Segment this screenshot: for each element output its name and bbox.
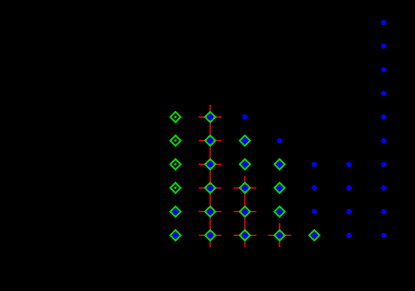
green open diamond marker at col1 row4 bbox=[205, 112, 215, 122]
blue dot marker at col6 row3 bbox=[381, 91, 386, 96]
blue dot marker at col6 row8 bbox=[381, 209, 386, 214]
green open diamond marker at col1 row6 bbox=[205, 159, 215, 169]
blue dot marker inside diamond at col4 row9 bbox=[311, 232, 317, 238]
green open diamond marker at col2 row6 bbox=[240, 159, 250, 169]
blue dot marker at col6 row6 bbox=[381, 162, 386, 167]
error-bar horizontal line at col2 row7 bbox=[234, 187, 257, 189]
blue dot marker inside diamond at col1 row9 bbox=[207, 232, 213, 238]
green open diamond marker at col0 row8 bbox=[170, 206, 180, 216]
blue dot marker inside diamond at col3 row8 bbox=[277, 209, 283, 215]
green open diamond marker at col1 row9 bbox=[205, 230, 215, 240]
error-bar vertical line, column x=245 bbox=[244, 176, 246, 247]
small green dot marker at col0 row4 bbox=[174, 116, 176, 118]
blue dot marker at col3 row5 bbox=[277, 138, 282, 143]
green open diamond marker at col0 row6 bbox=[170, 159, 180, 169]
error-bar vertical line, column x=280 bbox=[279, 223, 281, 247]
green open diamond marker at col1 row8 bbox=[205, 206, 215, 216]
blue dot marker inside diamond at col2 row7 bbox=[242, 185, 248, 191]
blue dot marker inside diamond at col1 row5 bbox=[207, 138, 213, 144]
green open diamond marker at col4 row9 bbox=[309, 230, 319, 240]
blue dot marker inside diamond at col2 row8 bbox=[242, 209, 248, 215]
green open diamond marker at col2 row7 bbox=[240, 183, 250, 193]
blue dot marker at col4 row7 bbox=[312, 185, 317, 190]
blue dot marker at col6 row4 bbox=[381, 114, 386, 119]
error-bar horizontal line at col1 row9 bbox=[199, 234, 222, 236]
error-bar horizontal line at col1 row4 bbox=[199, 116, 222, 118]
blue dot marker at col2 row4 bbox=[242, 114, 247, 119]
blue dot marker inside diamond at col2 row9 bbox=[242, 232, 248, 238]
blue dot marker at col5 row6 bbox=[346, 162, 351, 167]
small green dot marker at col0 row7 bbox=[174, 187, 176, 189]
blue dot marker inside diamond at col1 row6 bbox=[207, 161, 213, 167]
green open diamond marker at col3 row6 bbox=[274, 159, 284, 169]
blue dot marker inside diamond at col3 row6 bbox=[277, 161, 283, 167]
blue dot marker at col5 row8 bbox=[346, 209, 351, 214]
green open diamond marker at col3 row9 bbox=[274, 230, 284, 240]
blue dot marker at col6 row5 bbox=[381, 138, 386, 143]
blue dot marker inside diamond at col1 row7 bbox=[207, 185, 213, 191]
blue dot marker at col5 row7 bbox=[346, 185, 351, 190]
blue dot marker at col4 row6 bbox=[312, 162, 317, 167]
error-bar horizontal line at col1 row6 bbox=[199, 163, 222, 165]
error-bar horizontal line at col2 row9 bbox=[234, 234, 257, 236]
blue dot marker at col4 row8 bbox=[312, 209, 317, 214]
blue dot marker inside diamond at col1 row8 bbox=[207, 209, 213, 215]
blue dot marker inside diamond at col3 row7 bbox=[277, 185, 283, 191]
green open diamond marker at col2 row8 bbox=[240, 206, 250, 216]
error-bar horizontal line at col1 row7 bbox=[199, 187, 222, 189]
error-bar horizontal line at col2 row8 bbox=[234, 211, 257, 213]
error-bar horizontal line at col1 row8 bbox=[199, 211, 222, 213]
blue dot marker inside diamond at col2 row6 bbox=[242, 161, 248, 167]
blue dot marker at col6 row0 bbox=[381, 20, 386, 25]
green open diamond marker at col0 row7 bbox=[170, 183, 180, 193]
error-bar horizontal line at col3 row9 bbox=[268, 234, 291, 236]
blue dot marker at col6 row9 bbox=[381, 233, 386, 238]
blue dot marker inside diamond at col0 row9 bbox=[173, 232, 179, 238]
green open diamond marker at col0 row4 bbox=[170, 112, 180, 122]
green open diamond marker at col1 row5 bbox=[205, 135, 215, 145]
green open diamond marker at col2 row5 bbox=[240, 135, 250, 145]
green open diamond marker at col1 row7 bbox=[205, 183, 215, 193]
green open diamond marker at col2 row9 bbox=[240, 230, 250, 240]
blue dot marker inside diamond at col0 row8 bbox=[173, 209, 179, 215]
green open diamond marker at col3 row7 bbox=[274, 183, 284, 193]
blue dot marker inside diamond at col3 row9 bbox=[277, 232, 283, 238]
blue dot marker at col6 row1 bbox=[381, 43, 386, 48]
green open diamond marker at col3 row8 bbox=[274, 206, 284, 216]
blue dot marker at col6 row7 bbox=[381, 185, 386, 190]
blue dot marker inside diamond at col1 row4 bbox=[207, 114, 213, 120]
error-bar vertical line, column x=210 bbox=[209, 105, 211, 248]
green open diamond marker at col0 row5 bbox=[170, 135, 180, 145]
blue dot marker at col5 row9 bbox=[346, 233, 351, 238]
blue dot marker at col6 row2 bbox=[381, 67, 386, 72]
small green dot marker at col0 row6 bbox=[174, 163, 176, 165]
error-bar horizontal line at col1 row5 bbox=[199, 140, 222, 142]
small green dot marker at col0 row5 bbox=[174, 139, 176, 141]
green open diamond marker at col0 row9 bbox=[170, 230, 180, 240]
blue dot marker inside diamond at col2 row5 bbox=[242, 138, 248, 144]
